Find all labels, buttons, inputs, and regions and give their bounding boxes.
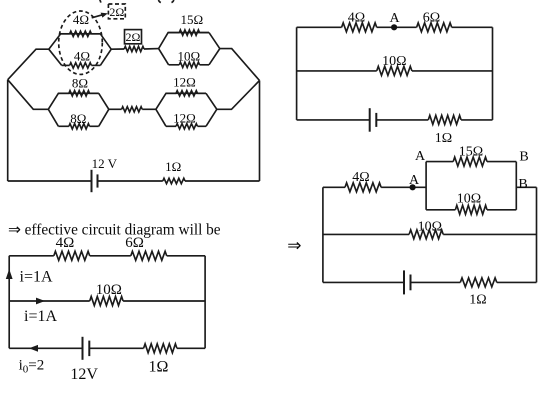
- wire: mid-right circuit right vertical: [536, 187, 538, 282]
- label 8Ω (R7): [70, 111, 86, 126]
- dashed box label 2Ω (equivalent): [108, 4, 125, 19]
- resistor R14 10Ω (middle branch): [377, 66, 412, 75]
- resistor R4 15Ω (top branch): [168, 30, 209, 35]
- label B (right of box): [518, 177, 527, 192]
- wire: box bottom left segment: [426, 209, 455, 211]
- battery V3: [404, 270, 411, 294]
- svg-text:B: B: [519, 150, 528, 165]
- wire: box top left segment: [426, 161, 453, 163]
- label A (box top-left): [415, 149, 426, 164]
- svg-text:12V: 12V: [70, 366, 98, 383]
- current arrow up (left wire): [6, 269, 13, 279]
- svg-text:10Ω: 10Ω: [96, 282, 122, 298]
- battery V2: [370, 108, 377, 132]
- resistor R8 (between 8Ω and 12Ω groups): [122, 107, 143, 112]
- svg-text:i=1A: i=1A: [20, 269, 53, 286]
- wire: hexagon2 right lead: [109, 108, 122, 110]
- label i=1A (middle): [24, 308, 57, 325]
- svg-text:A: A: [415, 149, 426, 164]
- svg-text:B: B: [518, 177, 527, 192]
- wire: bottom to battery V4: [9, 347, 82, 349]
- resistor R3 2Ω: [124, 46, 144, 51]
- svg-text:A: A: [409, 173, 420, 188]
- resistor R9 12Ω (top branch): [166, 91, 206, 96]
- wire: 1Ω to right corner: [185, 180, 260, 182]
- svg-text:10Ω: 10Ω: [177, 49, 200, 64]
- resistor R15 1Ω: [428, 115, 461, 124]
- label A (node): [389, 11, 400, 26]
- resistor R21 4Ω: [54, 251, 90, 260]
- wire: left junction to hexagon1 left: [8, 49, 49, 79]
- wire: battery to 1Ω: [98, 180, 163, 182]
- resistor R1 4Ω (top branch): [61, 31, 101, 36]
- svg-text:4Ω: 4Ω: [74, 49, 90, 64]
- resistor R10 12Ω (bottom branch): [166, 124, 206, 129]
- resistor R20 1Ω: [460, 278, 497, 287]
- resistor R12 4Ω: [342, 23, 377, 32]
- svg-text:15Ω: 15Ω: [459, 145, 483, 160]
- wire: mid-right circuit left vertical: [322, 187, 324, 282]
- svg-text:10Ω: 10Ω: [457, 192, 481, 207]
- label 10Ω (R18): [457, 192, 481, 207]
- label 12Ω (R10): [173, 111, 196, 126]
- wire: battery V3 to 1Ω: [411, 281, 461, 283]
- label 15Ω (R17): [459, 145, 483, 160]
- label A (above node): [409, 173, 420, 188]
- resistor R7 8Ω (bottom branch): [58, 124, 98, 129]
- wire: 2Ω to hexagon3: [144, 48, 159, 50]
- wire: 1Ω to bottom-right corner: [461, 119, 492, 121]
- node A (mid-right circuit): [410, 184, 416, 190]
- current arrow right (middle wire): [36, 298, 45, 305]
- svg-text:⇒: ⇒: [287, 236, 301, 255]
- label 10Ω (R14): [382, 54, 406, 69]
- resistor R19 10Ω (middle branch): [409, 230, 443, 239]
- label 12 V: [92, 156, 118, 171]
- label 4Ω (R21): [56, 235, 75, 251]
- wire: battery V4 to 1Ω: [89, 347, 143, 349]
- wire: hexagon3 right to right junction: [220, 49, 260, 81]
- wire: middle branch right segment (bl): [123, 300, 205, 302]
- svg-text:12 V: 12 V: [92, 156, 118, 171]
- wire: box top right segment: [487, 161, 516, 163]
- svg-text:2Ω: 2Ω: [109, 5, 124, 19]
- label 1Ω (R20): [469, 293, 486, 308]
- wire: R8 to hexagon4: [142, 108, 156, 110]
- svg-text:6Ω: 6Ω: [125, 235, 144, 251]
- svg-text:2Ω: 2Ω: [126, 30, 141, 44]
- wire: bottom-left circuit left vertical: [8, 256, 10, 348]
- wire: middle branch left segment (bl): [9, 300, 90, 302]
- resistor R18 10Ω (inside box): [455, 205, 487, 214]
- svg-text:4Ω: 4Ω: [56, 235, 75, 251]
- wire: middle branch (10Ω) left segment: [323, 233, 409, 235]
- wire: box to right vertical: [516, 186, 536, 188]
- wire: left vertical: [7, 80, 9, 181]
- implies arrow (mid): [287, 236, 301, 255]
- label 4Ω (R2): [74, 49, 90, 64]
- wire: battery to 1Ω (R15): [376, 119, 428, 121]
- resistor R22 6Ω: [131, 251, 167, 260]
- svg-text:i0=2: i0=2: [19, 358, 45, 376]
- wire: left junction to hexagon2 left: [8, 80, 49, 110]
- resistor R16 4Ω: [345, 183, 381, 192]
- battery V4 12V: [83, 337, 90, 360]
- svg-text:i=1A: i=1A: [24, 308, 57, 325]
- resistor R24 1Ω: [144, 344, 177, 353]
- resistor R5 10Ω (bottom branch): [169, 62, 209, 67]
- label 4Ω (R12): [348, 11, 365, 26]
- wire: hexagon1 right lead: [111, 48, 124, 50]
- label 12V: [70, 366, 98, 383]
- label 4Ω (R1): [73, 12, 89, 27]
- svg-text:1Ω: 1Ω: [149, 359, 169, 376]
- label B (box top-right): [519, 150, 528, 165]
- wire: top side left segment: [297, 26, 342, 28]
- wire: 4Ω to parallel box: [381, 186, 426, 188]
- wire: 6Ω to top-right corner: [452, 26, 493, 28]
- wire: right vertical: [259, 81, 261, 182]
- parallel box right edge: [515, 162, 517, 210]
- label i0=2: [19, 358, 45, 376]
- wire: top-right circuit right vertical: [492, 27, 494, 120]
- wire: 6Ω to top-right corner (bl): [167, 255, 205, 257]
- arrow to equivalent 2Ω box: [92, 13, 108, 18]
- label 4Ω (R16): [352, 170, 369, 185]
- wire: top side left segment (bl): [9, 255, 54, 257]
- svg-text:8Ω: 8Ω: [70, 111, 86, 126]
- label 12Ω (R9): [173, 74, 196, 89]
- wire: middle branch left segment: [297, 70, 377, 72]
- hexagon frame for 15Ω/10Ω pair: [159, 33, 220, 65]
- svg-text:12Ω: 12Ω: [173, 74, 196, 89]
- svg-text:8Ω: 8Ω: [72, 75, 88, 90]
- label 15Ω (R4): [180, 12, 203, 27]
- wire: bottom-left circuit right vertical: [204, 256, 206, 348]
- wire: 1Ω to bottom-right corner (mid): [497, 281, 537, 283]
- label 10Ω (R23): [96, 282, 122, 298]
- svg-text:6Ω: 6Ω: [423, 11, 440, 26]
- resistor R13 6Ω: [417, 23, 452, 32]
- svg-text:12Ω: 12Ω: [173, 111, 196, 126]
- svg-text:4Ω: 4Ω: [352, 170, 369, 185]
- wire: 1Ω to bottom-right corner (bl): [177, 347, 205, 349]
- resistor R11 1Ω (bottom): [163, 178, 185, 183]
- svg-text:10Ω: 10Ω: [382, 54, 406, 69]
- battery V1 12V: [92, 170, 98, 192]
- wire: middle branch right segment: [443, 233, 536, 235]
- wire: top-right circuit left vertical: [296, 27, 298, 120]
- wire: main wire left segment: [323, 186, 345, 188]
- resistor R17 15Ω: [453, 157, 487, 166]
- parallel box left edge: [425, 162, 427, 210]
- wire: bottom side to battery: [297, 119, 370, 121]
- resistor R6 8Ω (top branch): [58, 91, 98, 96]
- label 1Ω (R11): [165, 159, 181, 174]
- label 10Ω (R19): [418, 220, 442, 235]
- node A (top-right circuit): [391, 24, 397, 30]
- svg-text:1Ω: 1Ω: [469, 293, 486, 308]
- label 10Ω (R5): [177, 49, 200, 64]
- resistor R23 10Ω: [90, 297, 123, 306]
- label 8Ω (R6): [72, 75, 88, 90]
- svg-text:4Ω: 4Ω: [348, 11, 365, 26]
- label i=1A (left): [20, 269, 53, 286]
- wire: middle branch right segment: [412, 70, 493, 72]
- svg-text:⇒ effective circuit diagram wi: ⇒ effective circuit diagram will be: [8, 221, 221, 238]
- wire: bottom left segment: [8, 180, 92, 182]
- svg-text:1Ω: 1Ω: [165, 159, 181, 174]
- hexagon frame for 12Ω pair: [156, 93, 217, 126]
- wire: box bottom right segment: [487, 209, 516, 211]
- label 1Ω (R24): [149, 359, 169, 376]
- current arrow left (bottom wire): [29, 345, 38, 352]
- label 6Ω (R13): [423, 11, 440, 26]
- svg-text:1Ω: 1Ω: [435, 131, 452, 146]
- wire: between 4Ω and 6Ω (bl): [90, 255, 131, 257]
- svg-text:A: A: [389, 11, 400, 26]
- hexagon frame for 8Ω pair: [48, 93, 109, 126]
- dashed ellipse around 4Ω pair: [59, 11, 103, 74]
- resistor R2 4Ω (bottom branch): [62, 63, 101, 68]
- wire: 4Ω to 6Ω through node A: [377, 26, 417, 28]
- cut-off title fragment: [100, 0, 174, 3]
- hexagon frame for 4Ω pair (left sides): [49, 34, 111, 66]
- label 1Ω (R15): [435, 131, 452, 146]
- svg-text:4Ω: 4Ω: [73, 12, 89, 27]
- label 6Ω (R22): [125, 235, 144, 251]
- wire: hexagon4 right to right junction: [217, 81, 260, 110]
- wire: bottom to battery V3: [323, 281, 404, 283]
- svg-text:10Ω: 10Ω: [418, 220, 442, 235]
- caption: effective circuit diagram will be: [8, 221, 221, 238]
- svg-text:15Ω: 15Ω: [180, 12, 203, 27]
- boxed label 2Ω (R3): [125, 30, 142, 45]
